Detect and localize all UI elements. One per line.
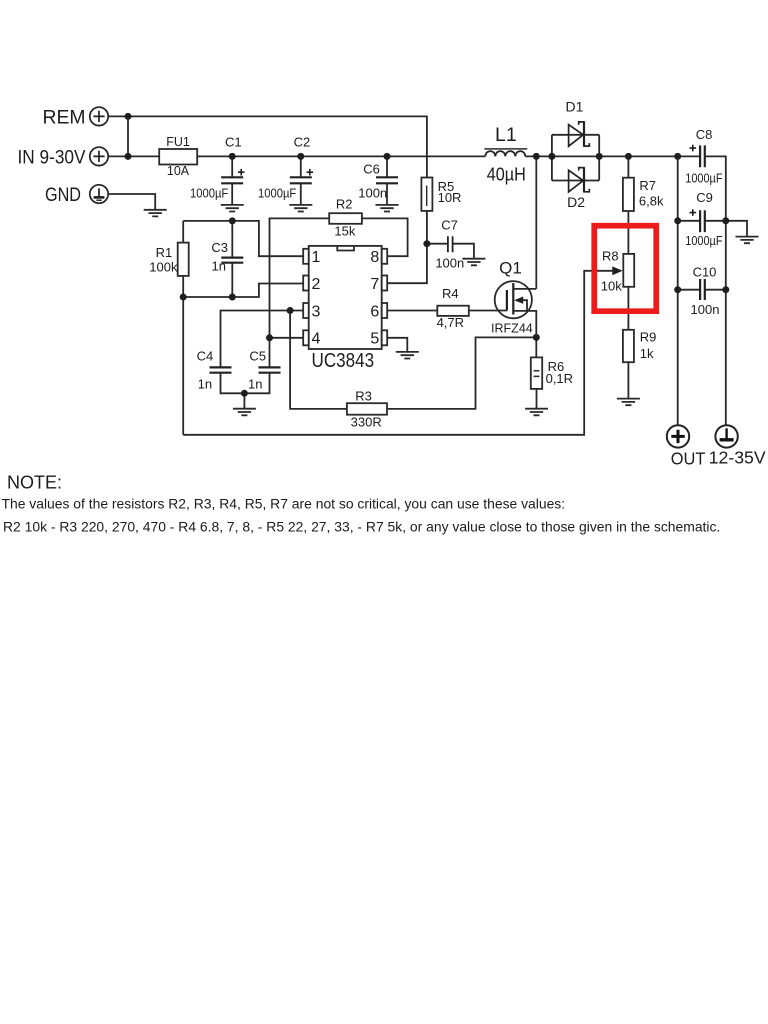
svg-text:1000µF: 1000µF — [685, 233, 722, 248]
svg-text:NOTE:: NOTE: — [7, 473, 62, 493]
svg-text:Q1: Q1 — [499, 258, 522, 277]
svg-text:C10: C10 — [693, 265, 717, 280]
svg-text:L1: L1 — [495, 124, 517, 146]
svg-text:C9: C9 — [696, 190, 713, 205]
svg-text:1000µF: 1000µF — [258, 186, 296, 201]
svg-text:R1: R1 — [156, 245, 173, 260]
svg-text:C8: C8 — [696, 127, 713, 142]
svg-text:15k: 15k — [334, 224, 355, 239]
svg-text:4,7R: 4,7R — [437, 315, 464, 330]
svg-text:1k: 1k — [640, 346, 654, 361]
svg-text:R4: R4 — [442, 286, 459, 301]
svg-text:R3: R3 — [355, 389, 372, 404]
svg-text:10k: 10k — [601, 279, 622, 294]
svg-text:10A: 10A — [167, 164, 190, 178]
svg-text:FU1: FU1 — [166, 135, 190, 149]
svg-text:C6: C6 — [363, 161, 380, 176]
svg-text:REM: REM — [43, 107, 86, 129]
svg-text:1n: 1n — [248, 376, 262, 391]
svg-text:C2: C2 — [294, 135, 311, 150]
svg-text:100n: 100n — [691, 302, 720, 317]
svg-text:OUT: OUT — [671, 449, 706, 469]
svg-text:C7: C7 — [441, 218, 458, 233]
svg-text:R9: R9 — [640, 330, 657, 345]
svg-text:4: 4 — [312, 331, 321, 348]
svg-text:40µH: 40µH — [487, 165, 526, 185]
svg-text:R2: R2 — [336, 197, 353, 212]
svg-text:8: 8 — [370, 249, 379, 266]
svg-text:R2 10k - R3 220, 270, 470 - R4: R2 10k - R3 220, 270, 470 - R4 6.8, 7, 8… — [3, 519, 720, 535]
svg-text:7: 7 — [370, 276, 379, 293]
svg-text:6,8k: 6,8k — [639, 194, 664, 209]
svg-text:C1: C1 — [225, 135, 242, 150]
svg-text:3: 3 — [312, 303, 321, 320]
svg-text:2: 2 — [312, 276, 321, 293]
svg-text:C5: C5 — [249, 348, 266, 363]
svg-text:D1: D1 — [566, 99, 584, 115]
svg-text:100k: 100k — [149, 260, 178, 275]
svg-text:1: 1 — [312, 249, 321, 266]
svg-text:The values of the resistors R2: The values of the resistors R2, R3, R4, … — [2, 496, 566, 512]
svg-text:1n: 1n — [198, 376, 212, 391]
svg-text:12-35V: 12-35V — [709, 448, 766, 468]
svg-text:10R: 10R — [438, 190, 462, 205]
svg-text:C4: C4 — [197, 348, 214, 363]
svg-text:6: 6 — [370, 303, 379, 320]
svg-text:100n: 100n — [435, 256, 464, 271]
svg-text:R8: R8 — [602, 248, 619, 263]
svg-text:5: 5 — [370, 331, 379, 348]
svg-text:IN 9-30V: IN 9-30V — [18, 147, 86, 169]
svg-text:330R: 330R — [351, 415, 382, 430]
svg-text:0,1R: 0,1R — [546, 371, 573, 386]
svg-text:IRFZ44: IRFZ44 — [491, 321, 533, 335]
svg-text:C3: C3 — [211, 240, 228, 255]
svg-text:D2: D2 — [567, 194, 585, 210]
svg-text:R7: R7 — [639, 178, 656, 193]
svg-text:UC3843: UC3843 — [312, 349, 375, 372]
svg-text:GND: GND — [45, 184, 81, 206]
svg-text:1000µF: 1000µF — [190, 186, 228, 201]
svg-text:1n: 1n — [212, 259, 226, 274]
svg-text:100n: 100n — [358, 186, 387, 201]
svg-text:1000µF: 1000µF — [685, 170, 722, 185]
